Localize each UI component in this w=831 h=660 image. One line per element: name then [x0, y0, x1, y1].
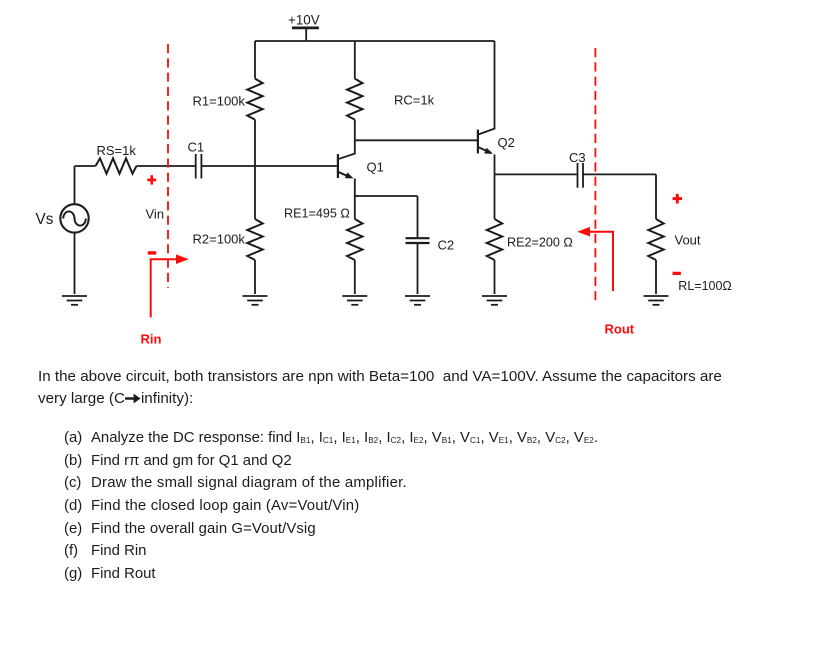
svg-text:Vout: Vout — [675, 233, 701, 248]
svg-text:RE2=200 Ω: RE2=200 Ω — [507, 236, 573, 250]
svg-text:C3: C3 — [569, 150, 586, 165]
svg-text:RL=100Ω: RL=100Ω — [678, 279, 731, 293]
svg-text:Q1: Q1 — [367, 160, 384, 175]
svg-text:RE1=495 Ω: RE1=495 Ω — [284, 207, 350, 221]
svg-text:C1: C1 — [188, 140, 205, 155]
svg-text:RC=1k: RC=1k — [394, 93, 435, 108]
svg-text:Rin: Rin — [141, 332, 162, 347]
svg-text:RS=1k: RS=1k — [97, 143, 137, 158]
svg-text:R1=100k: R1=100k — [193, 94, 246, 109]
svg-text:R2=100k: R2=100k — [193, 232, 246, 247]
svg-text:+10V: +10V — [288, 13, 320, 28]
svg-text:Vin: Vin — [146, 207, 165, 222]
svg-text:Rout: Rout — [605, 322, 635, 337]
svg-text:Vs: Vs — [36, 211, 54, 228]
svg-text:C2: C2 — [438, 238, 455, 253]
svg-text:Q2: Q2 — [498, 135, 515, 150]
